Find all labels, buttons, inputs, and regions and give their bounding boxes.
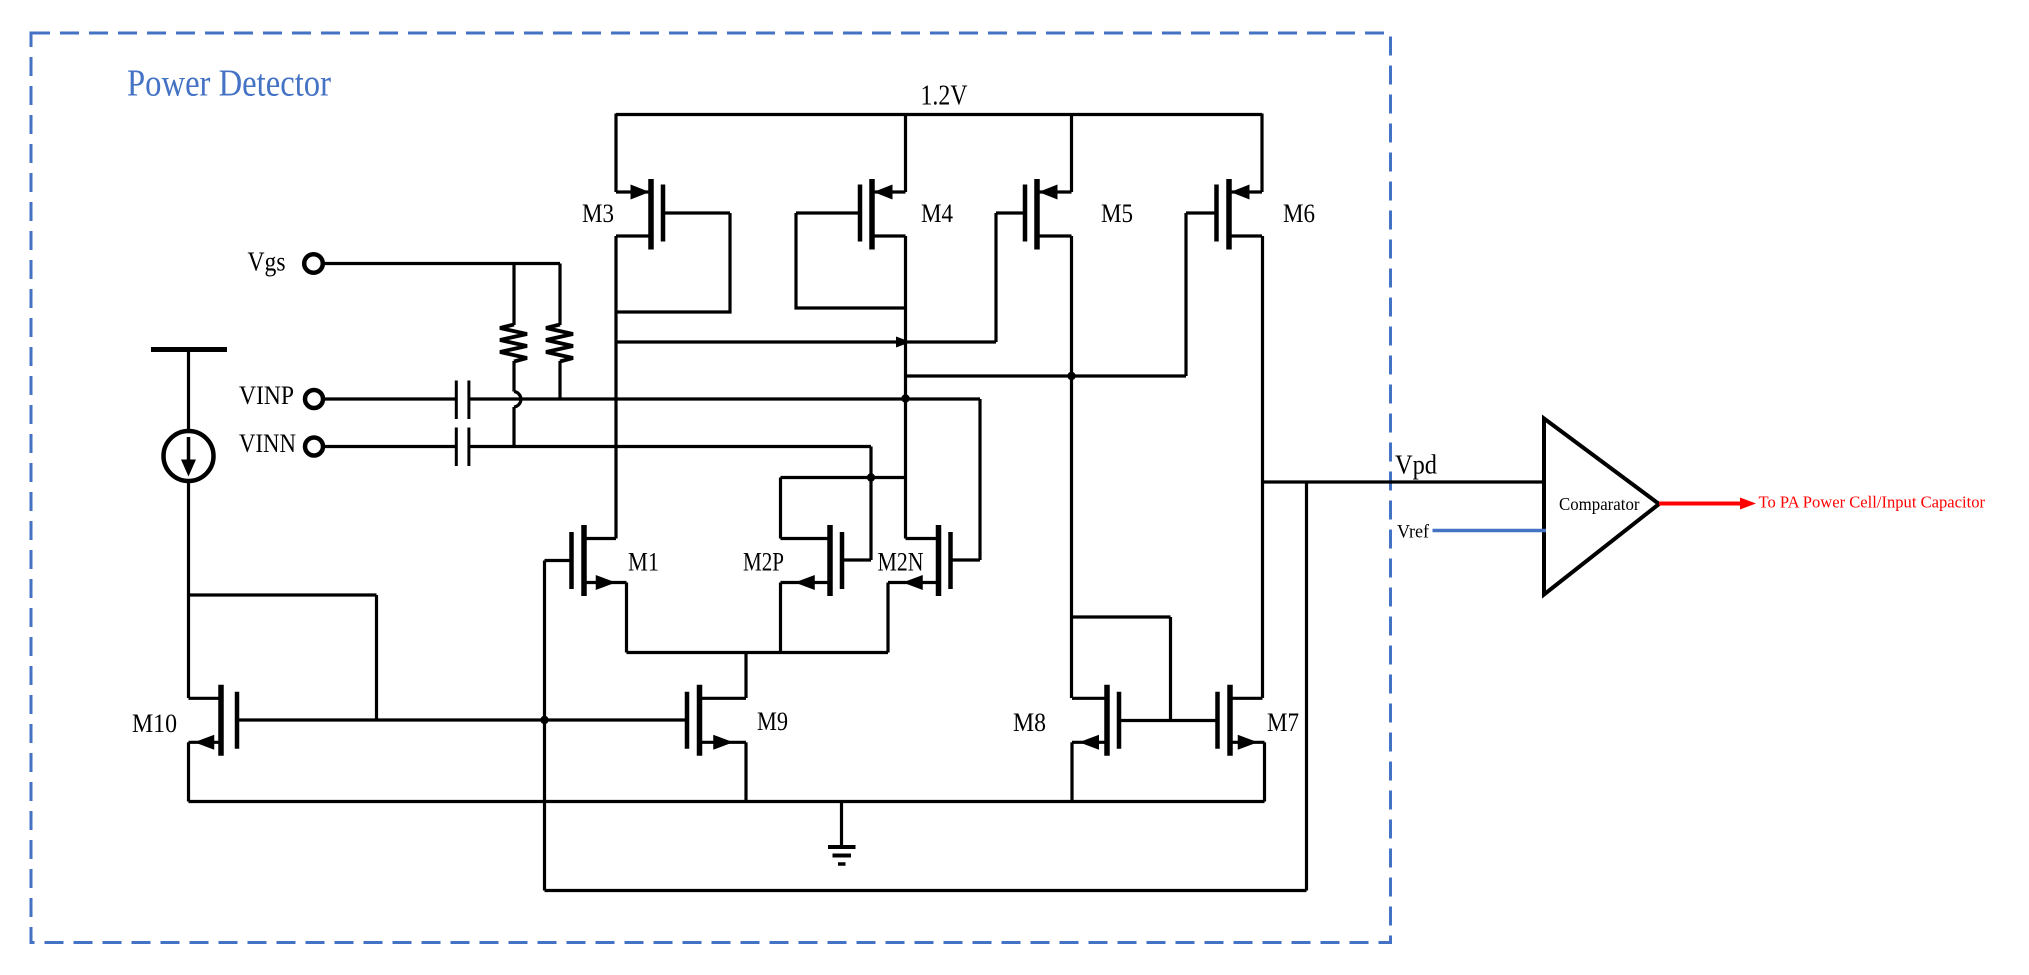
wire M5 gate lead <box>996 211 1025 214</box>
wire VINP to coupling capacitor <box>324 397 457 400</box>
wire M10 source drop <box>187 742 190 801</box>
op-amp U1 comparator triangle <box>1544 419 1659 595</box>
svg-text:M9: M9 <box>757 707 788 736</box>
wire VINN drop to M2P gate <box>869 447 872 561</box>
wire Vpd bus M4 drain to M6 gate (y=376) <box>906 374 1187 377</box>
wire M10-M9 gate bus (y=720) <box>237 718 687 721</box>
wire comparator output (red arrow) <box>1659 502 1742 506</box>
wire drain link M2P to M4 drain line (y=477.5) <box>781 476 906 479</box>
wire rail drop to M5 source <box>1070 114 1073 193</box>
wire M1 gate feedback drop (x=544.5) <box>543 561 546 891</box>
transistor M5 (PMOS mirror) <box>1037 190 1072 193</box>
svg-text:1.2V: 1.2V <box>921 80 968 112</box>
transistor M2N (NMOS squarer) <box>906 537 939 540</box>
transistor M2P (NMOS squarer) <box>781 537 831 540</box>
wire rail drop to M3 source <box>614 114 617 193</box>
svg-text:Vpd: Vpd <box>1395 450 1437 480</box>
wire M6 drain to M7 drain (x=1262.5) <box>1261 236 1264 698</box>
svg-text:M5: M5 <box>1101 199 1133 228</box>
terminal VINN <box>305 438 323 456</box>
wire feedback bottom run (y=890.5) <box>545 889 1307 892</box>
wire M3 gate-drain loop <box>616 213 730 312</box>
svg-text:Comparator: Comparator <box>1559 494 1640 514</box>
terminal Vgs <box>304 254 323 273</box>
svg-text:Power Detector: Power Detector <box>127 63 331 105</box>
power bar above current source <box>151 347 227 352</box>
transistor M3 (PMOS, diode-connected) <box>616 190 651 193</box>
svg-text:To PA Power Cell/Input Capacit: To PA Power Cell/Input Capacitor <box>1759 493 1986 512</box>
transistor M6 (PMOS output) <box>1229 190 1262 193</box>
wire M4 gate-drain loop <box>796 213 906 308</box>
svg-text:M2P: M2P <box>743 548 784 577</box>
wire hop over VINP line <box>514 392 521 408</box>
wire VINN line to M2P gate drop <box>469 445 871 448</box>
wire M4 drain to M2N drain (x=905.5) <box>904 236 907 539</box>
wire source bus to M9 drain <box>744 653 747 699</box>
svg-text:M6: M6 <box>1283 199 1315 228</box>
wire M3 drain to M1 drain (x=616) <box>614 236 617 539</box>
wire 1.2V top rail <box>616 113 1262 116</box>
wire Vgs line <box>325 262 561 265</box>
wire M7 source drop <box>1263 742 1266 801</box>
junction dot Vpd bus at M5 drain line <box>1067 372 1075 380</box>
dashed border frame of Power Detector block <box>31 33 1391 943</box>
resistor R1 (Vgs to VINN) <box>512 264 515 326</box>
svg-text:VINP: VINP <box>239 380 294 410</box>
wire M2P drain riser <box>779 478 782 539</box>
svg-text:VINN: VINN <box>239 428 296 458</box>
wire M4 gate lead <box>796 211 860 214</box>
svg-text:M2N: M2N <box>878 548 924 577</box>
transistor M7 (NMOS mirror out) <box>1230 697 1263 700</box>
transistor M10 (NMOS bias mirror) <box>189 697 222 700</box>
wire M8 diode loop horizontal <box>1072 615 1171 618</box>
wire M2P gate lead <box>842 558 871 561</box>
transistor M4 (PMOS, diode-connected) <box>872 190 906 193</box>
wire current source to M10 drain <box>187 481 190 698</box>
wire M10 diode branch drop to gate bus <box>375 595 378 720</box>
svg-text:Vref: Vref <box>1397 523 1430 543</box>
wire M9 source drop <box>744 742 747 801</box>
wire M1 source drop <box>625 583 628 653</box>
wire M3 gate lead <box>663 211 730 214</box>
wire feedback riser to Vpd (x=1306.5) <box>1305 482 1308 891</box>
wire M2P source drop <box>779 583 782 653</box>
svg-text:M3: M3 <box>582 199 614 228</box>
junction arrow on mirror bus at M4 drain line <box>896 337 911 348</box>
wire VINP drop to M2N gate <box>978 399 981 560</box>
wire mirror gate bus M3-M5 (y=342) <box>616 340 996 343</box>
wire M6 gate drop to Vpd bus <box>1184 213 1187 376</box>
svg-text:M10: M10 <box>132 709 177 738</box>
wire rail drop to M6 source <box>1260 114 1263 193</box>
terminal VINP <box>305 390 323 408</box>
junction dot gate bus at feedback line <box>540 716 548 724</box>
wire M8-M7 gate bus <box>1119 719 1218 722</box>
wire ground rail (y=801.5) <box>189 800 1265 803</box>
transistor M9 (NMOS tail) <box>700 697 747 700</box>
capacitor C2 (VINN coupling) <box>455 428 458 467</box>
wire M2N source drop <box>886 583 889 653</box>
capacitor C1 (VINP coupling) <box>455 381 458 420</box>
wire M5 drain to M8 drain (x=1071.5) <box>1070 236 1073 698</box>
wire M6 gate lead <box>1186 211 1217 214</box>
svg-text:M4: M4 <box>921 199 953 228</box>
svg-text:M8: M8 <box>1013 708 1046 737</box>
wire M1 gate lead <box>545 559 572 562</box>
junction dot VINN drop at drain link <box>867 473 875 481</box>
svg-text:M1: M1 <box>628 548 659 577</box>
wire Vref input (blue) <box>1433 529 1547 533</box>
wire VINN to coupling capacitor <box>324 445 457 448</box>
wire M8 source drop <box>1070 742 1073 801</box>
transistor M1 (NMOS input) <box>584 537 616 540</box>
wire M2N gate lead <box>951 558 981 561</box>
current source I1 <box>164 431 214 481</box>
wire M5 gate drop to mirror bus <box>994 213 997 342</box>
resistor R2 (Vgs to VINP) <box>558 264 561 326</box>
wire M8 diode loop drop <box>1169 617 1172 721</box>
wire rail drop to M4 source <box>904 114 907 193</box>
wire bar to current source <box>187 350 190 432</box>
junction dot VINP line at M4 drain line <box>901 394 909 402</box>
wire VINP line to M2N gate drop <box>469 397 980 400</box>
svg-text:Vgs: Vgs <box>248 247 286 277</box>
transistor M8 (NMOS, diode-connected) <box>1072 697 1107 700</box>
wire common source bus (y=652.5) <box>627 651 889 654</box>
ground symbol <box>840 802 843 848</box>
wire Vpd output line <box>1263 480 1546 483</box>
wire M10 diode branch horizontal <box>189 593 377 596</box>
svg-text:M7: M7 <box>1267 708 1299 737</box>
